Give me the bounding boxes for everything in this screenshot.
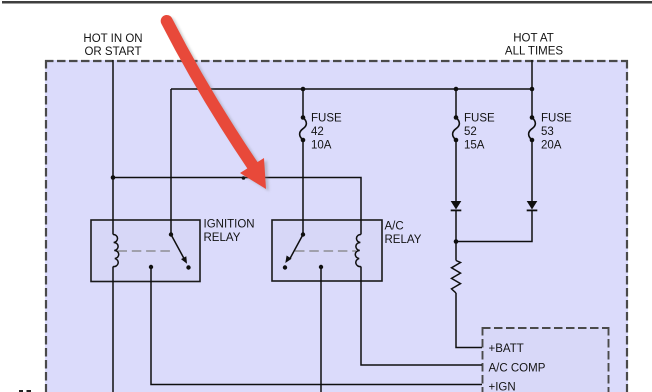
svg-text:FUSE: FUSE <box>311 113 342 125</box>
svg-text:+IGN: +IGN <box>489 382 516 392</box>
svg-text:A/C: A/C <box>385 221 404 233</box>
svg-text:10A: 10A <box>311 140 332 152</box>
svg-text:15A: 15A <box>464 140 485 152</box>
svg-text:+BATT: +BATT <box>489 343 524 355</box>
svg-text:A/C COMP: A/C COMP <box>489 363 546 375</box>
svg-text:FUSE: FUSE <box>541 113 572 125</box>
svg-text:HOT AT: HOT AT <box>513 33 553 45</box>
svg-text:ALL TIMES: ALL TIMES <box>505 46 563 58</box>
svg-text:RELAY: RELAY <box>385 234 422 246</box>
svg-text:RELAY: RELAY <box>204 232 241 244</box>
svg-text:53: 53 <box>541 126 554 138</box>
svg-text:FUSE: FUSE <box>464 113 495 125</box>
svg-text:52: 52 <box>464 126 477 138</box>
svg-text:IGNITION: IGNITION <box>204 219 255 231</box>
svg-text:HOT IN ON: HOT IN ON <box>83 33 142 45</box>
svg-text:OR START: OR START <box>84 46 141 58</box>
svg-text:20A: 20A <box>541 140 562 152</box>
svg-text:42: 42 <box>311 126 324 138</box>
